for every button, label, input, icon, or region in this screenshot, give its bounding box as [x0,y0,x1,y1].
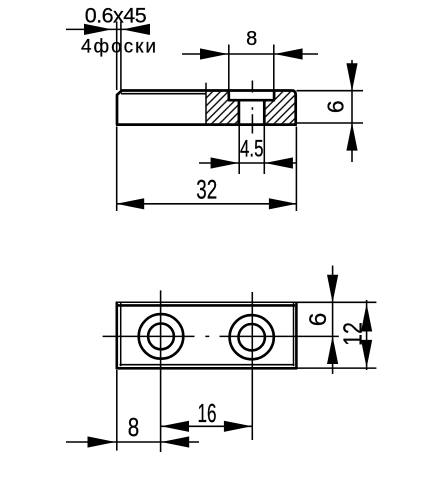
hole 1 bore circle [148,324,174,350]
arrow 6 plan bottom [327,336,338,364]
chamfer edge line [121,93,206,95]
arrow 0.6x45 right [123,24,151,35]
arrow 32 right [269,198,297,209]
extension line 4.5 right [263,126,265,175]
hatching region right of counterbore [274,92,295,124]
dimension 6 line (plate thickness) [351,60,353,162]
extension line plan bottom right [297,367,376,369]
plan outline top edge [116,301,297,303]
arrow 0.6x45 left [84,24,112,35]
hatching region below counterbore left shoulder [229,101,239,123]
hole 2 bore circle [239,324,265,350]
hole centerline (section view) [251,81,253,134]
plan chamfer line bottom [120,364,295,366]
extension line plan left edge [116,370,118,451]
arrow 6 plan top [327,275,338,303]
plan outline bottom edge [116,367,297,370]
arrow 8 plan right [161,436,189,447]
arrow 4.5 right [265,157,293,168]
dimension 32 line (overall length) [116,203,297,205]
local section boundary line [205,83,207,125]
dimension 8 line (counterbore width) [182,53,318,55]
part outline (section view) [116,91,297,125]
arrow 12 bottom [361,340,372,368]
extension line 32 right [295,127,297,212]
svg-text:6: 6 [323,100,349,113]
plan outline left edge [116,302,119,369]
horizontal centerline [103,335,339,337]
slot left wall [238,100,241,124]
extension line 6 top [297,90,364,92]
arrow 12 top [361,304,372,332]
counterbore bottom step [228,99,275,102]
arrow 32 left [116,198,144,209]
plan chamfer line left [120,303,122,366]
plan outline right edge [295,302,298,369]
dimension 16 line (hole spacing) [161,425,253,427]
dimension 0.6x45 leader line [66,28,150,30]
arrow 6 top [346,63,357,91]
hole 1 vertical centerline [160,290,162,452]
arrow 16 right [224,421,252,432]
arrow 8 right [275,48,303,59]
svg-text:4.5: 4.5 [240,135,264,162]
arrow 6 bottom [346,123,357,151]
svg-text:0.6х45: 0.6х45 [85,3,147,27]
dimension 6 line (edge to hole axis) [332,266,334,375]
extension line chamfer right [120,22,122,91]
hatching region below counterbore right shoulder [264,101,274,123]
counterbore left wall [227,91,230,101]
svg-text:16: 16 [198,398,217,428]
extension line chamfer left [116,22,118,91]
extension line plan top right [297,301,377,303]
hatching region left of counterbore [206,92,229,124]
dimension 12 line (plate width) [366,300,368,370]
extension line 32 left [116,127,118,212]
hole 2 vertical centerline [251,292,253,440]
arrow 8 plan left [88,436,116,447]
extension line 8 left [228,45,230,91]
counterbore right wall [273,91,276,101]
extension line 8 right [273,45,275,91]
svg-text:32: 32 [196,175,217,205]
svg-text:8: 8 [128,412,140,442]
dimension 8 line (edge to hole 1) [66,441,199,443]
svg-text:12: 12 [338,322,368,346]
arrow 16 left [161,421,189,432]
svg-text:6: 6 [305,313,332,327]
dimension 4.5 line (hole diameter) [199,162,296,164]
arrow 4.5 left [211,157,239,168]
hole 1 counterbore circle [139,314,184,359]
arrow 8 left [200,48,228,59]
slot right wall [263,100,266,124]
extension line 6 bottom [297,122,364,124]
plan chamfer line top [118,304,295,307]
hole 2 counterbore circle [230,315,274,359]
plan chamfer line right [293,303,295,366]
extension line 4.5 left [238,126,240,175]
svg-text:8: 8 [246,28,257,50]
